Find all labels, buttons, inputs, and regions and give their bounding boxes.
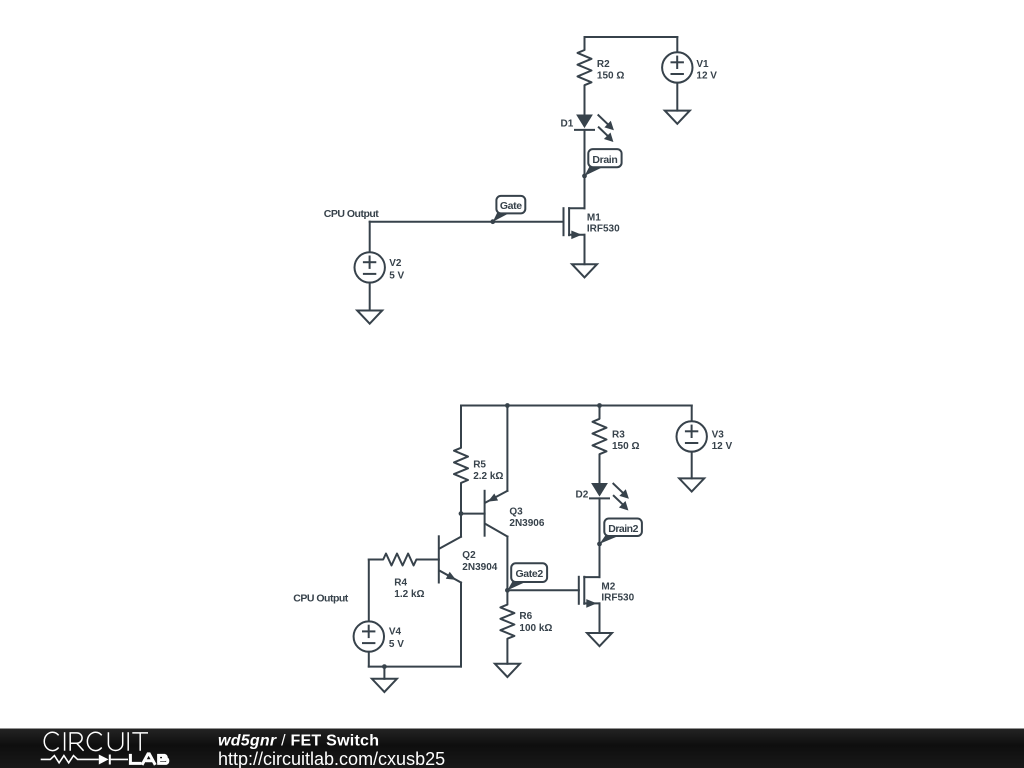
wire bottom rail	[461, 405, 692, 407]
svg-text:IRF530: IRF530	[601, 593, 634, 604]
node junction rail/R3	[597, 403, 602, 408]
svg-text:5 V: 5 V	[389, 639, 404, 650]
svg-text:CPU Output: CPU Output	[324, 208, 379, 220]
svg-text:R5: R5	[473, 460, 486, 471]
transistor M1 (NMOS IRF530)	[563, 208, 565, 235]
logo CIRCUIT (drawn)	[44, 732, 148, 751]
node Drain2 label	[600, 535, 620, 544]
svg-text:CPU Output: CPU Output	[293, 593, 348, 605]
svg-text:R2: R2	[597, 59, 610, 70]
svg-text:12 V: 12 V	[712, 441, 733, 452]
logo LAB (drawn)	[130, 754, 167, 765]
svg-text:Q2: Q2	[462, 550, 476, 561]
wire gate net	[370, 221, 564, 223]
svg-text:IRF530: IRF530	[587, 224, 620, 235]
svg-text:2.2 kΩ: 2.2 kΩ	[473, 471, 503, 482]
svg-text:D2: D2	[576, 489, 589, 500]
svg-text:V2: V2	[389, 258, 402, 269]
wire Q2 collector to node	[460, 514, 462, 537]
voltage source V2	[355, 252, 385, 282]
svg-text:R3: R3	[612, 430, 625, 441]
transistor Q2 (NPN 2N3904)	[438, 536, 440, 582]
svg-text:5 V: 5 V	[389, 271, 404, 282]
ground under V1	[665, 111, 690, 124]
svg-text:1.2 kΩ: 1.2 kΩ	[394, 589, 424, 600]
wire left column to V4	[368, 560, 370, 622]
node junction R5/Q3 base/Q2 collector	[459, 511, 464, 516]
node Drain label	[585, 167, 604, 176]
logo resistor squiggle	[41, 756, 99, 763]
svg-text:Gate: Gate	[500, 200, 522, 212]
svg-text:Gate2: Gate2	[515, 568, 543, 580]
svg-text:Drain2: Drain2	[608, 523, 638, 535]
ground under V3	[679, 478, 704, 491]
ground under V2	[357, 311, 382, 324]
ground bottom-left	[383, 667, 385, 679]
transistor M2 (NMOS IRF530)	[578, 577, 580, 604]
voltage source V1	[676, 37, 678, 52]
svg-text:V4: V4	[389, 627, 402, 638]
wire top rail V1-R2	[585, 36, 678, 38]
svg-text:M1: M1	[587, 213, 601, 224]
LED D1	[576, 115, 593, 129]
LED D2	[591, 483, 608, 497]
svg-text:D1: D1	[561, 119, 574, 130]
resistor R3	[593, 406, 607, 484]
svg-text:150 Ω: 150 Ω	[612, 441, 639, 452]
wire bottom return	[369, 666, 461, 668]
transistor Q3 (PNP 2N3906)	[484, 491, 486, 536]
wire Q3 emitter to rail	[506, 406, 508, 491]
logo diode	[99, 755, 109, 765]
wire Q2 emitter to bottom return	[460, 583, 462, 667]
node Gate2	[507, 581, 526, 590]
svg-text:R4: R4	[394, 578, 407, 589]
svg-text:12 V: 12 V	[696, 71, 717, 82]
svg-text:R6: R6	[519, 611, 532, 622]
svg-text:Q3: Q3	[509, 507, 523, 518]
svg-text:M2: M2	[601, 581, 615, 592]
svg-text:2N3906: 2N3906	[509, 518, 544, 529]
node junction rail/Q3	[505, 403, 510, 408]
wire D2 cathode to M2 drain	[599, 498, 601, 577]
LED D1 light arrows	[598, 115, 608, 125]
ground under M2	[587, 633, 612, 646]
svg-text:2N3904: 2N3904	[462, 562, 497, 573]
wire D1 cathode to M1 drain	[584, 130, 586, 208]
voltage source V3	[691, 406, 693, 422]
resistor R6	[500, 590, 514, 664]
svg-text:V3: V3	[712, 430, 725, 441]
node Gate label	[493, 212, 511, 222]
svg-text:100 kΩ: 100 kΩ	[519, 623, 552, 634]
svg-text:150 Ω: 150 Ω	[597, 71, 624, 82]
svg-text:http://circuitlab.com/cxusb25: http://circuitlab.com/cxusb25	[218, 749, 445, 768]
svg-text:V1: V1	[696, 59, 709, 70]
wire M2 source to ground	[599, 603, 601, 633]
voltage source V4	[354, 621, 384, 651]
ground under M1	[572, 264, 597, 277]
resistor R2	[578, 37, 592, 115]
node junction ground	[382, 664, 387, 669]
ground under R6	[495, 664, 520, 677]
wire Q3 base	[461, 513, 485, 515]
resistor R5	[454, 406, 468, 514]
LED D2 light arrows	[613, 484, 623, 494]
svg-text:Drain: Drain	[592, 154, 617, 166]
wire Gate2 to M2 gate	[507, 589, 578, 591]
resistor R4	[369, 554, 439, 566]
wire Q3 collector to Gate2 node	[506, 537, 508, 591]
wire M1 source to ground	[584, 235, 586, 264]
svg-text:wd5gnr / FET Switch: wd5gnr / FET Switch	[218, 733, 379, 750]
